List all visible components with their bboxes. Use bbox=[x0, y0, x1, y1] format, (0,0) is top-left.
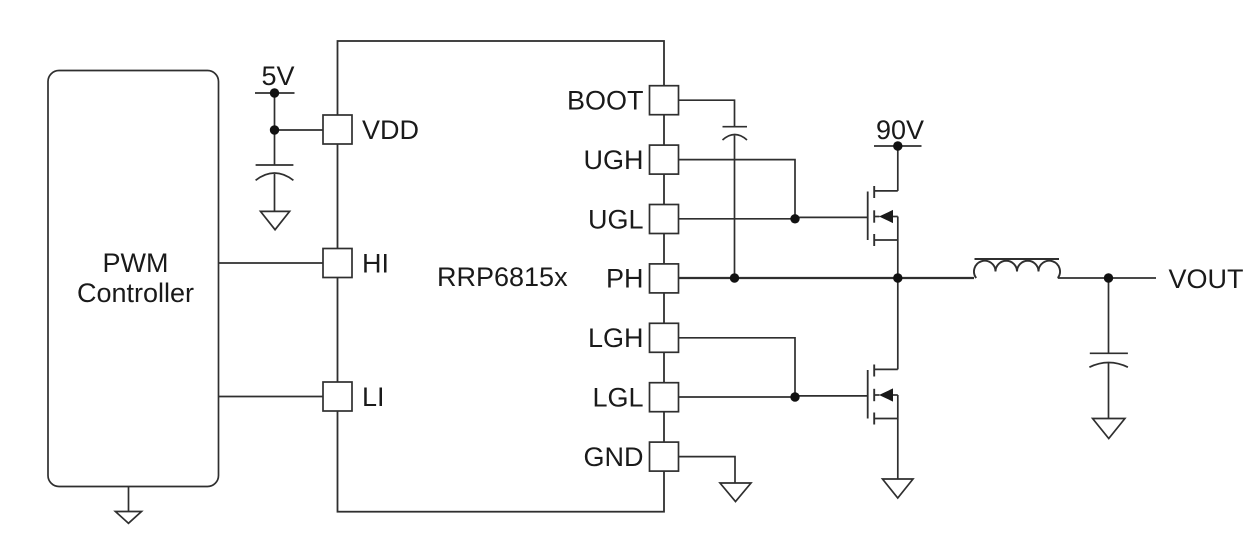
svg-text:VOUT: VOUT bbox=[1169, 264, 1244, 294]
svg-text:LGH: LGH bbox=[588, 323, 644, 353]
svg-text:UGL: UGL bbox=[588, 204, 644, 234]
svg-text:RRP6815x: RRP6815x bbox=[437, 262, 568, 292]
svg-text:LI: LI bbox=[362, 382, 385, 412]
svg-text:UGH: UGH bbox=[584, 145, 644, 175]
svg-text:90V: 90V bbox=[876, 115, 924, 145]
svg-text:VDD: VDD bbox=[362, 115, 419, 145]
svg-text:PH: PH bbox=[606, 263, 644, 293]
svg-text:HI: HI bbox=[362, 249, 389, 279]
svg-text:BOOT: BOOT bbox=[567, 86, 644, 116]
svg-text:5V: 5V bbox=[261, 61, 294, 91]
svg-text:GND: GND bbox=[584, 442, 644, 472]
svg-text:PWM: PWM bbox=[103, 248, 169, 278]
svg-text:LGL: LGL bbox=[592, 383, 643, 413]
svg-text:Controller: Controller bbox=[77, 278, 194, 308]
